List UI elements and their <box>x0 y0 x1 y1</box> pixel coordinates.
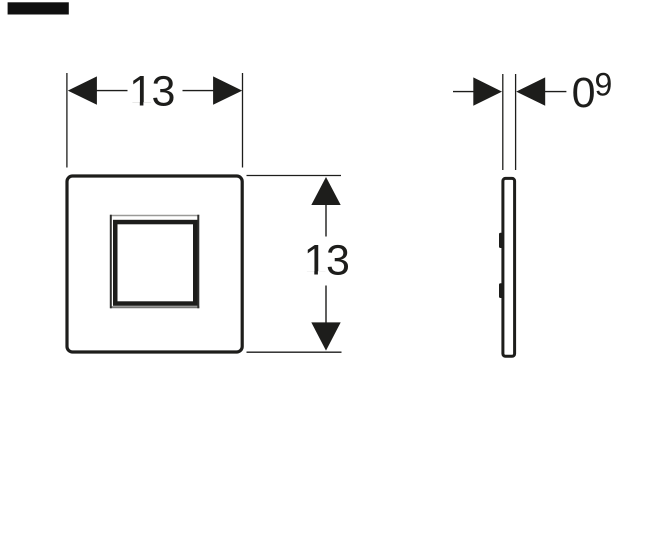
extension line left <box>66 73 68 168</box>
arrowhead down <box>311 322 340 350</box>
arrowhead pointing right <box>473 77 502 105</box>
button opening thick frame <box>115 222 195 303</box>
svg-text:13: 13 <box>304 237 349 285</box>
plate profile (side view) <box>503 178 515 356</box>
button opening thin outer line top <box>110 215 199 217</box>
arrowhead left <box>68 76 97 104</box>
button opening thin outer line left <box>110 215 112 309</box>
dimension line right segment <box>183 90 215 92</box>
arrowhead right <box>213 76 242 104</box>
dimension line left segment <box>96 90 128 92</box>
extension line left (side) <box>502 74 504 170</box>
plate outline (front view) <box>67 176 242 352</box>
extension line top <box>247 175 342 177</box>
arrowhead up <box>311 177 340 205</box>
lead line right <box>545 91 567 93</box>
mounting tab upper <box>499 233 504 248</box>
black marker rectangle top-left <box>8 2 69 14</box>
button opening thin outer line bottom <box>110 306 199 308</box>
svg-text:13: 13 <box>129 68 174 116</box>
dimension line lower segment <box>325 286 327 324</box>
extension line right (side) <box>515 74 517 170</box>
lead line left <box>453 91 474 93</box>
extension line right <box>242 73 244 168</box>
button opening thin outer line right <box>197 215 199 309</box>
mounting tab lower <box>499 283 504 298</box>
dimension line upper segment <box>325 204 327 237</box>
extension line bottom <box>247 351 342 353</box>
arrowhead pointing left <box>516 77 545 105</box>
